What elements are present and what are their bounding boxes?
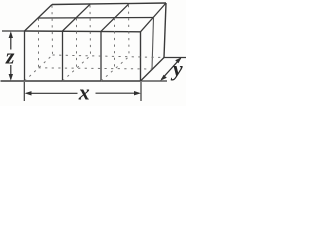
z top extension line — [2, 30, 25, 32]
front bottom edge with left extension — [1, 80, 141, 82]
hidden back vertical 3 (dashed) — [128, 5, 131, 57]
top depth diagonal 1 — [25, 5, 53, 32]
hidden bottom depth diagonal 2 (dashed) — [63, 56, 91, 82]
hidden half-depth vertical 2 (dashed) — [76, 18, 78, 68]
front right vertical — [140, 32, 142, 81]
svg-text:x: x — [78, 79, 90, 104]
hidden back left vertical (dashed) — [51, 6, 54, 56]
x dimension line right segment — [96, 92, 140, 94]
hidden back bottom edge (dashed) — [53, 55, 165, 58]
hidden half-depth vertical 3 (dashed) — [114, 18, 116, 68]
hidden bottom depth diagonal 1 (dashed) — [25, 55, 53, 81]
front top edge — [25, 30, 141, 33]
mid right vertical — [152, 18, 154, 70]
x right extension vertical — [140, 82, 142, 101]
top depth diagonal 3 — [101, 4, 129, 31]
front interior vertical 2 — [62, 31, 64, 81]
top depth diagonal 2 — [63, 4, 91, 31]
back bottom right extension (y dim) — [164, 57, 186, 59]
x arrowhead right — [134, 91, 141, 95]
z dimension arrow lower segment — [10, 65, 12, 79]
z dimension arrow upper segment — [10, 33, 12, 50]
hidden bottom depth diagonal 3 (dashed) — [101, 57, 129, 82]
svg-text:z: z — [5, 44, 15, 69]
y dimension line — [162, 58, 181, 79]
back top edge — [52, 3, 166, 5]
hidden back vertical 2 (dashed) — [89, 5, 92, 55]
front interior vertical 3 — [100, 31, 102, 81]
right face bottom diagonal — [141, 58, 165, 82]
x left extension vertical — [23, 82, 25, 101]
hidden half-depth bottom edge (dashed) — [39, 68, 153, 69]
y arrowhead lower — [160, 75, 167, 81]
bottom right extension (y dim) — [141, 80, 168, 82]
top depth diagonal 4 — [141, 3, 167, 32]
z arrowhead up — [9, 31, 13, 38]
back right vertical — [164, 3, 166, 58]
front left vertical — [24, 31, 26, 81]
x arrowhead left — [25, 91, 32, 95]
hidden half-depth vertical 1 (dashed) — [38, 19, 40, 68]
mid top edge — [39, 17, 154, 20]
z arrowhead down — [9, 74, 13, 81]
x dimension line left segment — [27, 92, 78, 94]
y arrowhead upper — [175, 57, 182, 63]
